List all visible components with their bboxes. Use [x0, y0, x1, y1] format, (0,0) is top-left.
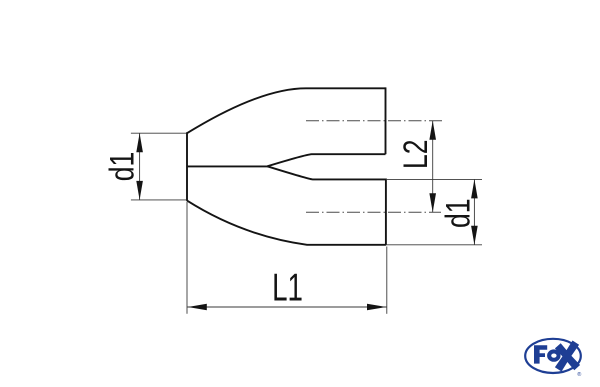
arrowhead d1-left down	[136, 181, 143, 200]
arrowhead L1 right	[367, 304, 386, 311]
centerline bottom pipe (dash-dot)	[306, 211, 441, 213]
pipe outline: bottom pipe top edge (lower wedge)	[267, 166, 386, 179]
centerline top pipe (dash-dot)	[306, 120, 443, 122]
arrowhead d1-right down	[471, 226, 478, 245]
extension line d1-left top	[131, 132, 186, 134]
extension line d1-left bottom	[131, 199, 186, 201]
dimension line L2	[432, 121, 434, 213]
FOX logo ellipse ring	[525, 339, 581, 373]
FOX logo letter X bar A	[555, 343, 580, 370]
arrowhead L1 left	[188, 304, 207, 311]
arrowhead L2 down	[429, 193, 436, 212]
pipe outline: middle split line	[187, 165, 268, 167]
svg-text:d1: d1	[102, 152, 141, 182]
FOX logo letter F	[534, 345, 547, 363]
FOX logo letter O	[547, 349, 561, 361]
dimension line d1-left	[139, 133, 141, 200]
svg-text:L1: L1	[272, 267, 303, 309]
svg-text:®: ®	[577, 371, 581, 378]
FOX logo letter X bar B	[555, 341, 579, 372]
svg-text:L2: L2	[396, 139, 435, 169]
pipe outline: inlet face	[186, 132, 188, 201]
dimension line d1-right	[473, 179, 475, 244]
arrowhead d1-right up	[471, 179, 478, 198]
pipe outline: bottom pipe right end	[385, 179, 387, 246]
dimension line L1	[187, 306, 387, 308]
svg-text:d1: d1	[438, 199, 477, 229]
arrowhead d1-left up	[136, 133, 143, 152]
extension line L1 left (below inlet corner)	[186, 202, 188, 314]
pipe outline: top pipe right end	[385, 87, 387, 154]
pipe outline: top pipe bottom edge (upper wedge)	[267, 154, 385, 166]
pipe outline: bottom edge with curve	[187, 201, 386, 245]
pipe outline: top edge with curve	[187, 88, 386, 133]
extension line d1-right bottom	[387, 244, 482, 246]
extension line L1 right (below pipe corner)	[386, 247, 388, 314]
arrowhead L2 up	[429, 121, 436, 140]
extension line d1-right top	[387, 178, 482, 180]
